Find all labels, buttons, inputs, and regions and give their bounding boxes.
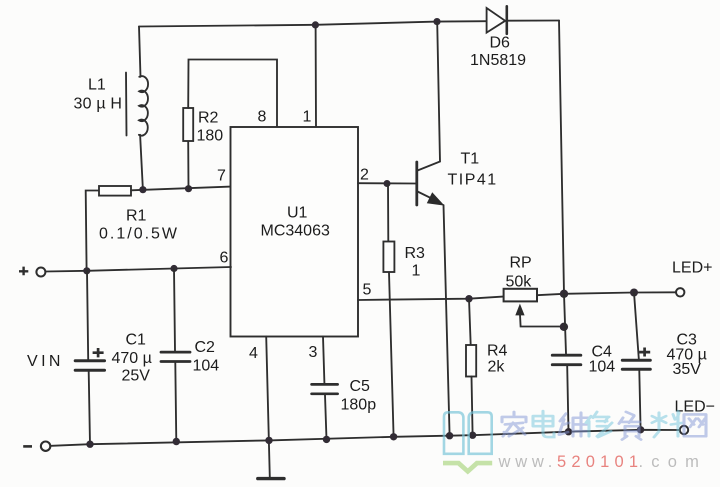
terminal label - (23, 445, 32, 448)
svg-text:25V: 25V (122, 368, 151, 385)
IC U1 box (231, 127, 359, 337)
node junction rail / C5 (323, 436, 330, 443)
svg-text:50k: 50k (506, 274, 533, 291)
node junction rail / pin4 ground (265, 437, 272, 444)
wire C3 bottom lead (639, 371, 640, 430)
node junction + rail / C2 (170, 265, 177, 272)
node junction top rail / pin1 (312, 21, 319, 28)
svg-text:R2: R2 (198, 110, 219, 127)
wire L1 top vertical (139, 27, 141, 77)
svg-text:L1: L1 (88, 77, 106, 94)
resistor R4 body (466, 345, 476, 377)
terminal label + (19, 267, 28, 276)
wire diode cathode to right corner (507, 20, 559, 22)
wire C2 bottom lead (175, 363, 176, 442)
node junction wiper / C4 branch (560, 323, 568, 331)
svg-text:35V: 35V (673, 361, 702, 378)
svg-text:2k: 2k (488, 359, 506, 376)
wire R3 top lead (387, 184, 389, 242)
capacitor C2 plates (161, 351, 190, 354)
wire pin7 from R1 to U1 (131, 187, 231, 191)
svg-text:RP: RP (510, 255, 532, 272)
svg-text:www.: www. (498, 453, 558, 471)
wire L1 bottom to pin7 node (140, 135, 143, 190)
resistor R2 body (183, 108, 193, 141)
svg-text:LED−: LED− (675, 399, 715, 416)
svg-text:VIN: VIN (27, 353, 64, 370)
potentiometer RP wiper arrow (515, 304, 524, 316)
svg-text:C5: C5 (350, 378, 371, 395)
svg-text:D6: D6 (490, 35, 511, 52)
svg-text:U1: U1 (287, 205, 308, 222)
node junction pin2 / R3 (384, 180, 391, 187)
wire C5 bottom lead (325, 395, 327, 439)
svg-text:2: 2 (360, 167, 369, 184)
terminal - input circle (41, 442, 50, 451)
svg-text:C2: C2 (195, 339, 216, 356)
node junction L1/pin7 (139, 186, 146, 193)
inductor L1 core bar (125, 73, 128, 136)
wire pin 1 lead (315, 25, 317, 127)
svg-text:MC34063: MC34063 (261, 223, 330, 240)
node junction rail / R4 (469, 432, 476, 439)
wire T1 emitter down to ground rail (444, 205, 450, 436)
svg-text:.com: .com (639, 453, 708, 471)
wire pin 3 lead (323, 337, 324, 383)
svg-text:1: 1 (303, 109, 312, 126)
wire C2 top lead (174, 269, 175, 351)
svg-text:30 µ H: 30 µ H (74, 96, 123, 113)
node junction rail / C3 (637, 426, 644, 433)
wire C1 bottom lead (89, 372, 90, 444)
svg-text:R4: R4 (487, 343, 508, 360)
svg-text:180p: 180p (341, 397, 377, 414)
wire C1 top lead (87, 271, 88, 359)
capacitor C3 plates (622, 359, 650, 362)
svg-text:1N5819: 1N5819 (470, 52, 526, 69)
transistor T1 base bar (415, 162, 418, 205)
svg-text:5: 5 (363, 282, 372, 299)
svg-text:6: 6 (220, 250, 229, 267)
wire RP wiper to C4 node (520, 315, 564, 327)
wire right vertical from top corner down to LED+ node (559, 21, 564, 294)
svg-text:C1: C1 (126, 332, 147, 349)
polarity + of C1 (93, 348, 104, 357)
svg-text:7: 7 (217, 168, 226, 185)
svg-text:104: 104 (193, 358, 220, 375)
wire R1 left lead and vertical down to + rail (86, 191, 99, 271)
svg-text:T1: T1 (461, 151, 480, 168)
node junction rail / R3 (390, 433, 397, 440)
wire pin 2 lead to T1 base (358, 182, 416, 184)
terminal LED- circle (680, 426, 688, 434)
terminal + input circle (36, 268, 45, 277)
wire pin 5 / LED+ rail (358, 297, 503, 300)
wire R4 top lead (469, 299, 471, 345)
node junction rail / C1 (86, 441, 93, 448)
wire C3 top lead (634, 293, 639, 359)
transistor T1 collector lead (418, 22, 441, 171)
watermark url www.520101.com (498, 453, 708, 471)
node junction LED+ rail / D6 branch (560, 290, 568, 298)
wire C4 top lead (564, 294, 566, 354)
wire + input rail to pin 6 (45, 267, 231, 272)
wire pin 4 lead down to ground symbol (266, 337, 270, 478)
transistor T1 emitter arrowhead (427, 192, 445, 205)
node junction R2/pin7 (185, 185, 192, 192)
capacitor C1 plates (75, 359, 104, 362)
diode D6 triangle (487, 8, 506, 33)
inductor L1 coil (139, 76, 148, 136)
svg-text:0.1/0.5W: 0.1/0.5W (99, 226, 179, 243)
wire R2 top to pin 8 (188, 60, 277, 128)
node junction rail / C4 (565, 428, 572, 435)
resistor R1 body (99, 186, 131, 196)
node junction rail / T1 emitter (446, 432, 453, 439)
svg-text:180: 180 (197, 128, 224, 145)
watermark chinese text (stylised strokes) (502, 411, 706, 440)
wire C4 bottom lead (567, 366, 568, 432)
svg-text:470 µ: 470 µ (112, 350, 152, 367)
svg-text:520101: 520101 (557, 453, 643, 471)
node junction LED+ rail / C3 (630, 289, 638, 297)
node junction top rail / T1 collector (433, 18, 440, 25)
ground symbol bar (258, 477, 284, 480)
watermark logo open book (443, 412, 492, 474)
diode D6 cathode bar (505, 6, 508, 34)
wire top rail from L1 corner to diode anode (139, 21, 487, 26)
transistor T1 emitter lead (418, 192, 439, 202)
resistor R3 body (383, 242, 394, 273)
potentiometer RP body (504, 289, 537, 302)
terminal LED+ circle (676, 288, 684, 296)
capacitor C4 plates (552, 354, 581, 357)
svg-text:TIP41: TIP41 (448, 172, 498, 189)
svg-text:104: 104 (589, 359, 616, 376)
wire bottom ground rail (51, 430, 680, 446)
capacitor C5 plates (312, 383, 338, 386)
node junction rail / C2 (173, 438, 180, 445)
watermark logo chevron (443, 461, 492, 475)
node junction LED+ rail / R4 (465, 295, 472, 302)
svg-text:1: 1 (412, 263, 421, 280)
svg-text:3: 3 (309, 344, 318, 361)
polarity + of C3 (639, 348, 650, 357)
svg-text:4: 4 (249, 345, 258, 362)
wire R2 bottom lead (187, 141, 189, 189)
node junction + rail / C1 (83, 267, 90, 274)
svg-text:R1: R1 (126, 208, 147, 225)
svg-text:R3: R3 (405, 245, 426, 262)
wire R3 bottom lead down to ground rail (389, 273, 394, 437)
wire R4 bottom lead (472, 377, 473, 436)
svg-text:LED+: LED+ (672, 260, 712, 277)
svg-text:8: 8 (258, 109, 267, 126)
